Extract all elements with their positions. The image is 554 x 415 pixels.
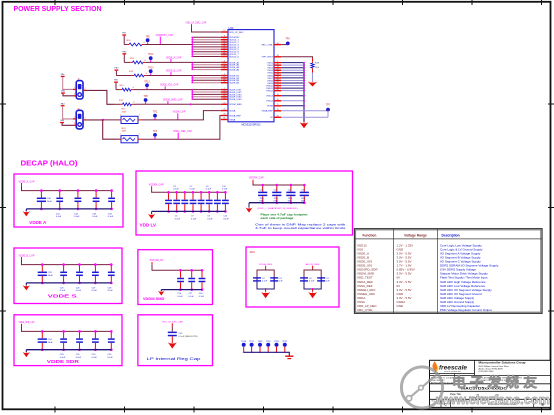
svg-text:10: 10 (277, 99, 279, 101)
svg-text:Description: Description (442, 233, 460, 237)
svg-text:TP2: TP2 (153, 112, 158, 114)
svg-text:VDDE_IOS_CAP: VDDE_IOS_CAP (160, 84, 179, 87)
bottom rail wire (26, 349, 111, 351)
capacitor C5 VDD LV (173, 186, 180, 221)
svg-text:VDDSTBY_CAP: VDDSTBY_CAP (156, 34, 174, 37)
svg-text:4.7uF: 4.7uF (260, 192, 266, 194)
wire U30 LP pin along bottom (281, 116, 328, 118)
title block drawn row text (431, 376, 523, 384)
capacitor C11 VDD LV (222, 186, 229, 221)
svg-text:POWER SUPPLY SECTION: POWER SUPPLY SECTION (14, 4, 102, 13)
svg-text:Function: Function (363, 233, 377, 237)
svg-text:0.1uF: 0.1uF (74, 216, 80, 218)
capacitor C9 VDD LV (206, 186, 213, 221)
svg-text:75: 75 (277, 109, 279, 111)
junction dot node VDDA (102, 119, 104, 121)
svg-text:6501 William Cannon Drive West: 6501 William Cannon Drive West (479, 365, 509, 368)
svg-text:0.1uF: 0.1uF (76, 290, 82, 292)
capacitor C24 bulk (38, 330, 54, 351)
svg-text:VRC_CTRL: VRC_CTRL (357, 308, 373, 312)
svg-text:2: 2 (85, 118, 86, 120)
svg-text:0.1uF: 0.1uF (108, 216, 114, 218)
wire junction to resistor R17 row6 (103, 119, 120, 121)
U30 right pin name labels (261, 45, 273, 120)
wire VDDRX rail left group (151, 186, 153, 189)
svg-text:ADC: ADC (250, 250, 256, 254)
bottom rail wire (26, 208, 111, 210)
svg-text:TP6: TP6 (285, 38, 290, 40)
wire VDDA_REF stem (265, 266, 267, 269)
wire jumper J5 output to row5 (83, 90, 114, 104)
svg-text:VDDE_B4: VDDE_B4 (229, 83, 240, 85)
svg-text:Voltage Range: Voltage Range (404, 233, 427, 237)
ground earth symbol for test points (285, 356, 293, 358)
wire VDDE_B_CAP rail (21, 257, 23, 260)
power flag VDDE_A row2 (122, 51, 127, 62)
svg-text:VDDE_A_CAP: VDDE_A_CAP (166, 56, 182, 59)
svg-text:TP12: TP12 (144, 81, 150, 83)
svg-text:78: 78 (223, 114, 225, 116)
net label VDDE_B_CAP row3 (166, 70, 182, 76)
svg-text:VDDA_REF: VDDA_REF (229, 114, 241, 117)
svg-text:TP7: TP7 (326, 105, 331, 107)
capacitor C1 (317, 277, 330, 282)
freescale logo flame (432, 361, 437, 372)
ground (23, 209, 30, 217)
power flag 4 for J6 (60, 119, 65, 123)
svg-text:VSSA: VSSA (229, 118, 235, 121)
svg-text:0.1uF: 0.1uF (199, 296, 205, 298)
test point row near decap (241, 341, 293, 358)
svg-text:1: 1 (74, 117, 75, 119)
test point TP14 row2 (148, 54, 154, 62)
wire ADCR_REF stem (312, 266, 314, 269)
title block (430, 360, 551, 407)
svg-text:0.1uF: 0.1uF (60, 290, 66, 292)
svg-text:VDDA_CAP: VDDA_CAP (173, 111, 186, 114)
capacitor C0 (300, 277, 315, 282)
svg-text:0.1uF: 0.1uF (207, 218, 213, 220)
svg-text:0.1uF: 0.1uF (190, 189, 196, 191)
svg-text:VDDRX_CAP: VDDRX_CAP (249, 177, 264, 180)
svg-text:-: - (397, 308, 398, 312)
svg-text:VDDRX_CAP: VDDRX_CAP (149, 183, 164, 186)
svg-text:80: 80 (223, 118, 225, 120)
jumper J6 (73, 108, 86, 129)
svg-text:Austin, Texas 78735-8598: Austin, Texas 78735-8598 (479, 368, 504, 371)
wire cap loop (304, 270, 321, 282)
VSS bus vertical wire (303, 63, 305, 122)
svg-text:52: 52 (223, 68, 225, 70)
test point TP21 (282, 341, 288, 352)
table column dividers (392, 229, 394, 314)
svg-text:18: 18 (277, 55, 279, 57)
junction tick row5 (190, 103, 192, 105)
svg-text:0.1uF: 0.1uF (173, 189, 179, 191)
decap box VDDE SDR (14, 315, 122, 366)
capacitor C31 decoupling (56, 189, 63, 218)
title block logo cell divider (430, 372, 475, 374)
svg-text:VDDE S: VDDE S (48, 294, 77, 299)
wire U30 VPP_TEST to resistor R19 (281, 57, 312, 59)
wire junction down to row7 (103, 120, 120, 139)
test point TP17 (249, 341, 255, 352)
wire row5 to U30 pin (136, 103, 221, 105)
ground (23, 350, 30, 358)
title block divider 4 (430, 398, 551, 400)
net label VDDA_REF_CAP row7 (173, 130, 192, 139)
svg-text:TP13: TP13 (148, 67, 154, 69)
ground for R19 (308, 82, 318, 87)
wire flag1 to J5 pin1 (63, 87, 73, 89)
resistor R16 row1 (124, 40, 145, 46)
svg-text:VSSA_REF: VSSA_REF (261, 110, 273, 113)
test point TP20 (274, 341, 280, 352)
bus group 2 wires to U30 (VDDE_A bundle) (191, 62, 220, 69)
wire test point rail (244, 352, 290, 355)
test point TP8 row5 (143, 96, 148, 104)
bottom rail wire VDD LV right (249, 202, 304, 204)
svg-text:10M: 10M (122, 131, 126, 133)
wire flag3 to J6 pin1 (63, 117, 73, 119)
svg-text:LP Internal Reg Cap: LP Internal Reg Cap (147, 357, 201, 361)
power flag 3 for J6 (61, 102, 66, 116)
wire row4 to bus (138, 89, 193, 91)
svg-text:0.1uF: 0.1uF (108, 357, 114, 359)
capacitor C14 VDD LV 4.7uF (286, 184, 295, 204)
svg-text:TP5: TP5 (145, 36, 150, 38)
svg-text:2: 2 (139, 114, 140, 116)
svg-text:0.1uF: 0.1uF (191, 218, 197, 220)
svg-text:0.1uF: 0.1uF (223, 218, 229, 220)
svg-text:10uF: 10uF (47, 201, 53, 203)
decap box LP Internal Reg Cap (138, 315, 213, 366)
wire VDDE_SDR_CAP rail (21, 324, 23, 327)
capacitor C26 decoupling (76, 263, 83, 292)
test point TP19 (266, 341, 272, 352)
wire VDD_LP_DEC_CAP to U30 pin (191, 24, 193, 27)
net label VDDA_CAP row6 (173, 111, 186, 120)
ground LP cap (168, 342, 177, 349)
VSS bundle wires right of U30 (281, 63, 304, 106)
ground VDD LV right (245, 203, 252, 213)
capacitor C20 decoupling (60, 330, 67, 359)
U30 left pin stubs and pin numbers (221, 30, 228, 120)
wire U30 VSSA_REF to test point TP7 (281, 110, 327, 112)
table header divider (355, 238, 543, 240)
svg-text:0.1uF: 0.1uF (206, 189, 212, 191)
junction tick bottom (265, 288, 267, 290)
wire row1 to bus (145, 44, 193, 46)
wire LP cap stem (171, 323, 173, 326)
wire flag2 to J5 pin3 (63, 94, 73, 96)
bus group 4 wires to U30 (VDDE_IOS bundle) (191, 90, 220, 100)
voltage table (355, 229, 543, 314)
wire VDDRX rail right group (252, 180, 254, 183)
capacitor C29 bulk (38, 263, 54, 284)
capacitor C3 (270, 277, 283, 282)
capacitor C12 VDD LV 4.7uF (258, 184, 267, 204)
capacitor C30 bulk (37, 189, 53, 210)
wire J6 output to junction (86, 119, 103, 121)
net label VDDE_IOS_CAP row4 (160, 84, 179, 90)
svg-text:VDDE SDR: VDDE SDR (47, 359, 80, 364)
ground VDD LV left (148, 211, 155, 219)
bottom rail wire (26, 282, 111, 284)
svg-text:VSS12: VSS12 (266, 91, 274, 93)
capacitor C22 decoupling (92, 330, 99, 359)
svg-text:0.1uF: 0.1uF (92, 216, 98, 218)
svg-text:VDDA: VDDA (229, 110, 236, 113)
svg-text:VDDM_SMD_CAP: VDDM_SMD_CAP (149, 259, 163, 262)
wire R19 to ground (312, 69, 314, 72)
U30 right pin stubs and pin numbers (274, 43, 281, 118)
capacitor C6 VDD LV (181, 191, 188, 213)
ground for VSS bus (300, 122, 309, 129)
wire flag4 to J6 pin3 (62, 123, 73, 125)
junction tick bottom (312, 288, 314, 290)
svg-text:0.1uF: 0.1uF (92, 357, 98, 359)
svg-text:58: 58 (223, 81, 225, 83)
ground VDDM SMD (158, 290, 165, 296)
svg-text:VDSB: VDSB (267, 106, 273, 108)
test point TP3 row7 (153, 131, 158, 139)
border zone ticks bottom (54, 407, 56, 413)
watermark circle logo (401, 367, 442, 408)
capacitor C2 (253, 277, 268, 282)
ground ADC group (308, 289, 317, 298)
svg-text:VDDM_SMD: VDDM_SMD (229, 104, 242, 106)
svg-text:VDDM_SMD_CAP: VDDM_SMD_CAP (163, 98, 183, 101)
svg-text:Place one 4.7uF cap footprint: Place one 4.7uF cap footprint (261, 212, 308, 216)
title block divider 2 (430, 383, 551, 385)
svg-text:82: 82 (277, 116, 279, 118)
svg-text:VDD_LP_DEC_CAP: VDD_LP_DEC_CAP (185, 22, 206, 25)
bottom rail wire VDD LV left (152, 210, 226, 212)
svg-text:3: 3 (74, 93, 75, 95)
title block vertical divider (474, 360, 476, 375)
svg-text:VDDA_REF: VDDA_REF (259, 263, 273, 266)
power flag VDDRX row1 (122, 33, 127, 45)
ground ADC group (261, 289, 270, 298)
net label VDDE_A_CAP row2 (166, 56, 182, 62)
svg-text:MC9S12XDP512: MC9S12XDP512 (241, 124, 261, 127)
capacitor C10 VDD LV (214, 191, 221, 213)
capacitor C21 decoupling (76, 330, 83, 359)
wire row3 to bus (148, 75, 192, 77)
test point TP2 row6 (153, 112, 158, 120)
border zone ticks right (548, 103, 554, 105)
svg-text:VDDE A: VDDE A (29, 220, 46, 225)
capacitor C19 LP internal reg (168, 332, 198, 338)
svg-text:0.1uF: 0.1uF (177, 296, 183, 298)
svg-text:VDD12_8: VDD12_8 (229, 56, 239, 58)
table rows (357, 243, 499, 312)
wire row2 to bus (148, 61, 192, 63)
power flag 1 for J5 (61, 73, 66, 87)
svg-text:TP14: TP14 (148, 54, 154, 56)
VSS bus junction ticks (303, 63, 305, 118)
test point TP13 row3 (148, 67, 154, 75)
title block divider 1 (430, 375, 551, 377)
svg-text:74: 74 (277, 94, 279, 96)
resistor R19 pulldown (311, 62, 320, 70)
svg-text:VSS13: VSS13 (266, 96, 274, 98)
wire C19 to ground (171, 336, 173, 342)
capacitor C27 decoupling (92, 263, 99, 292)
svg-text:VDDE_IOS5: VDDE_IOS5 (229, 99, 242, 101)
svg-text:69: 69 (277, 89, 279, 91)
svg-text:12: 12 (223, 30, 225, 32)
svg-text:each side of package: each side of package (261, 216, 295, 220)
decap box VDD LV (136, 171, 353, 235)
resistor R13 row4 (116, 85, 138, 91)
decap box VDDE S (14, 248, 122, 304)
capacitor C13 VDD LV 4.7uF (272, 184, 281, 204)
resistor R17 box row6 (120, 109, 142, 124)
svg-text:0.1uF: 0.1uF (108, 290, 114, 292)
svg-text:Microcontroller Solutions Grou: Microcontroller Solutions Group (479, 361, 526, 365)
svg-text:0.1uF: 0.1uF (309, 281, 315, 283)
svg-text:semiconductor: semiconductor (444, 370, 461, 373)
U30 left pin name labels (229, 32, 244, 122)
net label VDDM_SMD_CAP row5 (163, 98, 183, 104)
svg-text:10M: 10M (122, 111, 126, 113)
resistor R12 row5 (114, 100, 136, 106)
svg-text:VDD_LP_DEC_CAP: VDD_LP_DEC_CAP (162, 320, 184, 323)
svg-text:VDDE_B_CAP: VDDE_B_CAP (19, 254, 35, 257)
border zone ticks top (54, 0, 56, 5)
svg-text:4.7uF to keep overall capacita: 4.7uF to keep overall capacitance within… (255, 227, 346, 230)
capacitor C16 VDDM SMD (177, 269, 184, 298)
svg-text:10uF: 10uF (48, 275, 54, 277)
capacitor C4 VDD LV (165, 191, 172, 213)
svg-text:4.7uF: 4.7uF (301, 192, 307, 194)
bus group 3 wires to U30 (VDDE_B bundle) (191, 76, 220, 83)
svg-text:VDDE_B_CAP: VDDE_B_CAP (166, 70, 182, 73)
wire VDDE_A_CAP rail (21, 183, 23, 186)
svg-text:66: 66 (223, 97, 225, 99)
resistor R14 row3 (116, 71, 148, 77)
svg-text:VDDA_REF_CAP: VDDA_REF_CAP (173, 130, 192, 133)
capacitor C8 VDD LV (198, 191, 205, 213)
svg-text:56: 56 (277, 43, 279, 45)
wire row7 to U30 pin VDDA_REF (141, 116, 221, 140)
border zone ticks left (0, 103, 6, 105)
svg-text:1: 1 (120, 134, 121, 136)
svg-text:DECAP (HALO): DECAP (HALO) (21, 159, 79, 168)
capacitor C28 decoupling (108, 263, 115, 292)
capacitor C32 decoupling (74, 189, 81, 218)
capacitor C34 decoupling (108, 189, 115, 218)
svg-text:0.1uF (SEE NOTE): 0.1uF (SEE NOTE) (179, 336, 198, 338)
svg-text:GND: GND (397, 304, 405, 308)
resistor R18 box row7 (120, 128, 142, 143)
svg-text:VRC_CTRL: VRC_CTRL (261, 45, 273, 47)
svg-text:2: 2 (85, 88, 86, 90)
svg-text:U30: U30 (229, 26, 234, 30)
svg-text:4.7uF: 4.7uF (288, 192, 294, 194)
svg-text:71: 71 (277, 104, 279, 106)
wire U30 VRC_CTRL to test point (281, 44, 287, 46)
ground (23, 283, 30, 291)
svg-text:10uF: 10uF (48, 342, 54, 344)
capacitor C25 decoupling (60, 263, 67, 292)
svg-text:VDDE_A_CAP: VDDE_A_CAP (19, 180, 35, 183)
decap box VDDE A (14, 174, 123, 227)
test point TP18 (258, 341, 264, 352)
net label VDDSTBY_CAP row1 (156, 34, 174, 45)
wire VDDM rail (151, 262, 153, 265)
svg-text:0.1uF: 0.1uF (56, 216, 62, 218)
test point TP16 (241, 341, 247, 352)
svg-text:3: 3 (74, 123, 75, 125)
svg-text:VPP_TEST: VPP_TEST (262, 57, 274, 59)
svg-text:VDD LV: VDD LV (140, 223, 157, 228)
test point TP12 row4 (144, 81, 150, 89)
capacitor C33 decoupling (92, 189, 99, 218)
svg-text:www.elecfans.com: www.elecfans.com (435, 392, 550, 407)
svg-text:VDDE_A4: VDDE_A4 (229, 69, 240, 72)
svg-text:1: 1 (74, 87, 75, 89)
resistor R15 row2 (124, 58, 148, 64)
decap box VDDM SMD (138, 250, 213, 305)
capacitor C23 decoupling (108, 330, 115, 359)
bus group 1 wires to U30 (VDD12 bundle) (191, 37, 220, 56)
svg-text:(DNP_+_WHATEVER_IS_NEEDED): (DNP_+_WHATEVER_IS_NEEDED) (258, 207, 298, 210)
test point TP5 row1 (145, 36, 150, 44)
svg-text:VDDM SMD: VDDM SMD (143, 296, 165, 301)
wire cap loop (257, 270, 274, 282)
capacitor C15 VDD LV 4.7uF (300, 184, 309, 204)
op-amp U30 main IC body (228, 30, 274, 122)
svg-text:电子发烧友: 电子发烧友 (452, 374, 541, 390)
svg-text:PMC Voltage Regulator Control: PMC Voltage Regulator Control Output (440, 308, 492, 312)
svg-text:VSS14: VSS14 (266, 101, 274, 103)
bottom rail wire VDDM SMD (161, 289, 202, 291)
capacitor C18 VDDM SMD (199, 269, 206, 298)
svg-text:2: 2 (139, 134, 140, 136)
svg-text:76: 76 (223, 109, 225, 111)
svg-text:TP8: TP8 (143, 96, 148, 98)
title block divider 3 (430, 390, 551, 392)
svg-text:TP3: TP3 (153, 131, 158, 133)
jumper J5 (73, 79, 86, 99)
svg-text:0.1uF: 0.1uF (175, 218, 181, 220)
svg-text:0.1uF: 0.1uF (92, 290, 98, 292)
svg-text:70: 70 (223, 55, 225, 57)
power flag 2 for J5 (61, 90, 66, 94)
svg-text:VDDE_SDR_CAP: VDDE_SDR_CAP (19, 321, 35, 324)
svg-text:0.1uF: 0.1uF (189, 296, 195, 298)
capacitor C17 VDDM SMD (188, 269, 195, 298)
capacitor C7 VDD LV (190, 186, 197, 221)
power flag VDDE_B row3 (114, 68, 119, 76)
title block small cells verticals (454, 373, 456, 383)
wire row6 to U30 pin VDDA (141, 111, 221, 120)
ADC group VDDA_REF (253, 263, 283, 298)
svg-text:VDD_LP_DEC: VDD_LP_DEC (229, 32, 244, 34)
svg-text:4.7uF: 4.7uF (274, 192, 280, 194)
svg-text:72: 72 (223, 103, 225, 105)
svg-text:1: 1 (120, 114, 121, 116)
decap box ADC (246, 247, 339, 307)
svg-text:ADCR_REF: ADCR_REF (306, 263, 320, 266)
title block size cell divider (440, 399, 442, 407)
svg-text:0.1uF: 0.1uF (262, 281, 268, 283)
svg-text:(512) 895-2000: (512) 895-2000 (479, 371, 495, 373)
power flag VDDE_IOS row4 (114, 80, 119, 90)
